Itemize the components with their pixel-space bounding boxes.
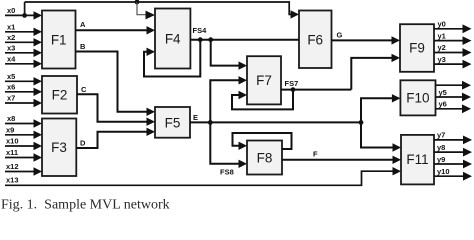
svg-text:Fig. 1. Sample MVL network: Fig. 1. Sample MVL network bbox=[1, 198, 170, 213]
node top rail junction bbox=[135, 0, 140, 4]
svg-text:x7: x7 bbox=[7, 94, 15, 103]
node FS4 junction 2 bbox=[208, 37, 213, 42]
svg-text:x1: x1 bbox=[7, 23, 15, 32]
svg-text:F11: F11 bbox=[406, 152, 428, 167]
svg-text:x12: x12 bbox=[6, 162, 19, 171]
wire output y9 bbox=[434, 155, 472, 169]
svg-text:y1: y1 bbox=[438, 31, 446, 40]
svg-text:x13: x13 bbox=[6, 175, 19, 184]
svg-text:y5: y5 bbox=[439, 88, 447, 97]
block F10 bbox=[400, 80, 435, 115]
wire x0 bbox=[5, 6, 42, 20]
wire x5 bbox=[5, 72, 42, 86]
svg-text:F4: F4 bbox=[165, 32, 181, 47]
wire B from F1 to F5 input 1 bbox=[76, 42, 156, 116]
wire x11 bbox=[5, 148, 42, 162]
node x0 junction bbox=[22, 13, 27, 18]
wire FS4 feedback loop to F4 input 3 bbox=[144, 40, 200, 77]
svg-text:F1: F1 bbox=[51, 33, 67, 48]
block F9 bbox=[400, 24, 434, 72]
wire FS7 feedback loop to F7 input 3 bbox=[232, 90, 293, 110]
svg-text:x11: x11 bbox=[6, 148, 18, 157]
svg-text:F5: F5 bbox=[165, 116, 181, 131]
wire x12 bbox=[5, 162, 42, 176]
node FS4 junction 1 bbox=[198, 37, 203, 42]
block F6 bbox=[299, 11, 332, 69]
wire output y7 bbox=[434, 131, 472, 145]
wire x2 bbox=[5, 33, 42, 47]
wire x8 bbox=[5, 114, 42, 128]
svg-text:D: D bbox=[80, 139, 86, 148]
wire top rail branch to F4 input 1 bbox=[137, 2, 155, 19]
svg-text:F3: F3 bbox=[51, 140, 67, 155]
wire x4 bbox=[5, 55, 42, 69]
wire C from F2 to F5 input 2 bbox=[77, 85, 155, 126]
svg-text:C: C bbox=[81, 85, 87, 94]
block F4 bbox=[155, 9, 190, 69]
wire x10 bbox=[5, 137, 42, 151]
wire x1 bbox=[5, 23, 42, 37]
block F1 bbox=[42, 11, 76, 69]
svg-text:E: E bbox=[193, 113, 198, 122]
svg-text:G: G bbox=[337, 31, 343, 40]
svg-text:x4: x4 bbox=[7, 55, 16, 64]
svg-text:x8: x8 bbox=[7, 114, 15, 123]
node E junction 1 bbox=[208, 120, 213, 125]
svg-text:F8: F8 bbox=[257, 151, 273, 166]
wire output y0 bbox=[434, 20, 472, 34]
block F8 bbox=[247, 141, 282, 175]
block F5 bbox=[155, 107, 190, 138]
svg-text:B: B bbox=[80, 42, 86, 51]
wire F from F8 to F11 input 2 bbox=[282, 150, 401, 165]
svg-text:x2: x2 bbox=[7, 33, 15, 42]
wire E branch up to F10 input bbox=[361, 94, 400, 122]
wire output y8 bbox=[434, 143, 472, 157]
wire E branch down to F11 input 1 bbox=[361, 122, 401, 151]
svg-text:y0: y0 bbox=[438, 20, 446, 29]
wire output y10 bbox=[434, 167, 472, 181]
svg-text:FS7: FS7 bbox=[285, 79, 299, 88]
svg-text:FS8: FS8 bbox=[220, 168, 234, 177]
svg-text:A: A bbox=[80, 20, 86, 29]
wire output y6 bbox=[436, 100, 472, 114]
wire F8 feedback loop FS8 to F8 input 1 bbox=[233, 133, 292, 150]
svg-text:x0: x0 bbox=[7, 6, 15, 15]
svg-text:F10: F10 bbox=[406, 91, 429, 106]
wire FS4 from F4 to F6 bbox=[190, 26, 299, 40]
svg-text:x9: x9 bbox=[6, 125, 14, 134]
wire x3 bbox=[5, 44, 42, 58]
svg-text:x10: x10 bbox=[6, 137, 19, 146]
svg-text:F6: F6 bbox=[307, 33, 323, 48]
svg-text:y10: y10 bbox=[437, 167, 450, 176]
wire E branch up to F7 input 2 bbox=[210, 76, 247, 122]
wire A from F1 to F4 input 2 bbox=[76, 20, 156, 35]
node E junction 2 bbox=[359, 120, 364, 125]
svg-text:F2: F2 bbox=[52, 88, 68, 103]
svg-text:F7: F7 bbox=[256, 73, 272, 88]
wire E branch down to F8 input 2 bbox=[210, 122, 247, 168]
node FS7 junction bbox=[291, 87, 296, 92]
block F2 bbox=[42, 76, 77, 114]
svg-text:y2: y2 bbox=[438, 43, 446, 52]
wire output y3 bbox=[434, 55, 472, 69]
wire FS4 branch to F7 input 1 bbox=[211, 40, 247, 70]
wire E from F5 to right bbox=[190, 113, 361, 122]
svg-text:x5: x5 bbox=[7, 72, 15, 81]
wire FS7 up to F9 input 2 bbox=[351, 54, 400, 90]
wire x7 bbox=[5, 94, 42, 108]
wire output y2 bbox=[434, 43, 472, 57]
wire G from F6 to F9 input 1 bbox=[332, 31, 401, 45]
svg-text:x3: x3 bbox=[7, 44, 15, 53]
wire D from F3 to F5 input 3 bbox=[76, 128, 155, 148]
wire x0 riser to top rail bbox=[24, 2, 26, 15]
svg-text:y6: y6 bbox=[439, 100, 447, 109]
wire x6 bbox=[5, 83, 42, 97]
wire top rail to F6 bbox=[25, 2, 299, 19]
svg-text:y7: y7 bbox=[437, 131, 445, 140]
svg-text:F: F bbox=[313, 150, 318, 159]
svg-text:y8: y8 bbox=[437, 143, 445, 152]
wire FS7 from F7 bbox=[281, 79, 351, 90]
svg-text:x6: x6 bbox=[7, 83, 15, 92]
wire output y4 line bbox=[436, 81, 472, 90]
svg-text:y9: y9 bbox=[437, 155, 445, 164]
wire output y5 bbox=[436, 88, 472, 102]
block F7 bbox=[247, 56, 281, 104]
wire x13 long rail to F11 input 3 bbox=[5, 167, 401, 185]
svg-text:F9: F9 bbox=[409, 41, 425, 56]
wire x9 bbox=[5, 125, 42, 139]
svg-text:y3: y3 bbox=[438, 55, 446, 64]
block F3 bbox=[42, 119, 76, 177]
wire output y1 bbox=[434, 31, 472, 45]
block F11 bbox=[401, 135, 434, 185]
svg-text:FS4: FS4 bbox=[193, 26, 208, 35]
